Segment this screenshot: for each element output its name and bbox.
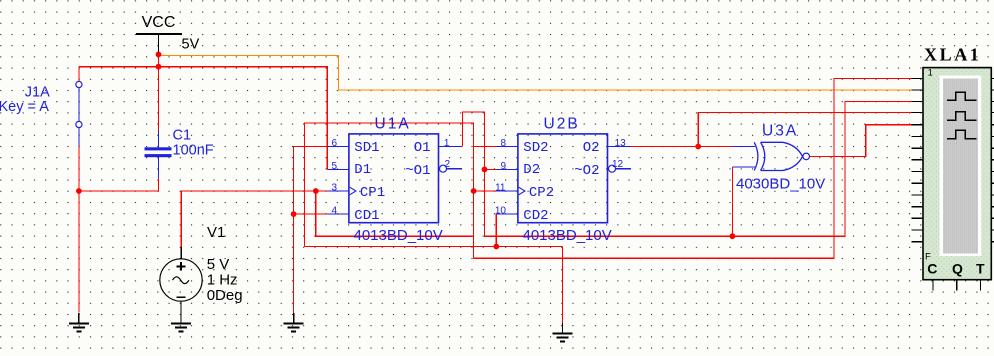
svg-text:U2B: U2B: [544, 116, 580, 133]
svg-text:~O1: ~O1: [405, 163, 430, 179]
svg-text:C1: C1: [173, 128, 192, 144]
svg-text:CP2: CP2: [529, 185, 554, 201]
svg-text:VCC: VCC: [142, 14, 176, 31]
svg-text:O2: O2: [583, 140, 600, 156]
svg-text:5V: 5V: [182, 37, 200, 53]
svg-text:8: 8: [500, 138, 506, 149]
svg-text:4: 4: [331, 206, 337, 217]
svg-text:1 Hz: 1 Hz: [207, 271, 238, 288]
svg-text:CD1: CD1: [354, 208, 379, 224]
svg-text:V1: V1: [207, 224, 225, 241]
svg-text:11: 11: [495, 183, 506, 194]
svg-text:4013BD_10V: 4013BD_10V: [523, 227, 612, 244]
svg-text:D1: D1: [354, 162, 371, 178]
svg-text:Q: Q: [952, 261, 963, 277]
svg-text:2: 2: [445, 159, 451, 170]
svg-text:4013BD_10V: 4013BD_10V: [354, 227, 443, 244]
svg-text:6: 6: [331, 138, 337, 149]
svg-text:SD2: SD2: [523, 140, 548, 156]
svg-text:CP1: CP1: [360, 185, 385, 201]
svg-text:13: 13: [615, 138, 627, 149]
svg-text:0Deg: 0Deg: [207, 287, 243, 304]
svg-text:XLA1: XLA1: [924, 45, 981, 65]
svg-text:SD1: SD1: [354, 140, 379, 156]
svg-text:~O2: ~O2: [574, 163, 599, 179]
svg-text:3: 3: [331, 183, 337, 194]
svg-text:O1: O1: [414, 140, 431, 156]
svg-text:T: T: [976, 261, 985, 277]
svg-text:U3A: U3A: [762, 123, 798, 140]
svg-text:D2: D2: [523, 162, 540, 178]
svg-text:1: 1: [928, 68, 933, 78]
svg-text:5: 5: [331, 161, 337, 172]
svg-text:100nF: 100nF: [173, 143, 214, 159]
svg-text:10: 10: [495, 206, 507, 217]
svg-text:Key = A: Key = A: [0, 99, 49, 115]
svg-text:C: C: [927, 261, 937, 277]
svg-text:9: 9: [500, 161, 506, 172]
svg-text:4030BD_10V: 4030BD_10V: [736, 176, 825, 193]
svg-text:1: 1: [444, 138, 450, 149]
svg-text:U1A: U1A: [375, 116, 411, 133]
svg-text:12: 12: [612, 159, 624, 170]
svg-text:CD2: CD2: [523, 208, 548, 224]
